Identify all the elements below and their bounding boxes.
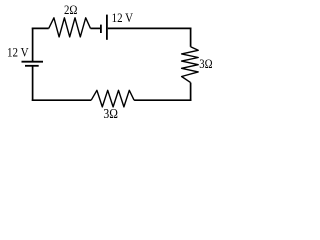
battery 12V (top) short plate bbox=[100, 25, 102, 33]
svg-text:12 V: 12 V bbox=[7, 44, 29, 59]
svg-text:12 V: 12 V bbox=[112, 10, 134, 25]
wire top-right horizontal bbox=[108, 27, 192, 29]
wire top-left horizontal bbox=[32, 27, 49, 29]
battery 12V (top) long plate bbox=[106, 15, 108, 40]
battery 12V (left) short plate bbox=[25, 65, 39, 67]
resistor 2 ohm (top) bbox=[49, 18, 91, 37]
wire top-middle bbox=[91, 27, 101, 29]
svg-text:3Ω: 3Ω bbox=[103, 106, 118, 121]
svg-text:3Ω: 3Ω bbox=[199, 56, 212, 71]
wire left-top vertical bbox=[32, 28, 34, 62]
resistor 3 ohm (right) bbox=[182, 47, 199, 83]
wire bottom-left horizontal bbox=[32, 99, 91, 101]
wire right lower vertical bbox=[190, 83, 192, 101]
wire left-bottom vertical bbox=[32, 66, 34, 101]
wire bottom-right horizontal bbox=[134, 99, 191, 101]
resistor 3 ohm (bottom) bbox=[91, 90, 134, 107]
battery 12V (left) long plate bbox=[22, 61, 44, 63]
svg-text:2Ω: 2Ω bbox=[64, 3, 78, 17]
wire right upper vertical bbox=[190, 28, 192, 47]
